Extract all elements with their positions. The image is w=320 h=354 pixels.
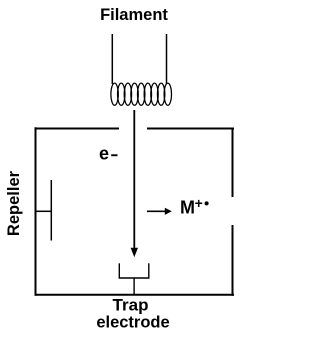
ion arrow (147, 210, 166, 212)
label radical dot (205, 201, 209, 205)
filament coil (111, 83, 172, 105)
wire repeller connection (37, 210, 52, 212)
svg-text:electrode: electrode (96, 314, 169, 332)
svg-text:+: + (195, 195, 203, 211)
svg-text:e: e (99, 144, 109, 164)
trap electrode cup bottom (119, 277, 150, 279)
trap electrode cup right wall (148, 263, 150, 278)
wire trap electrode stem (133, 278, 135, 295)
label e- dash (111, 154, 117, 156)
trap electrode cup left wall (118, 263, 120, 278)
svg-text:Trap: Trap (113, 296, 149, 315)
electron beam wire (133, 110, 135, 249)
electron beam arrowhead (131, 248, 138, 258)
wire box top edge left segment (35, 128, 120, 130)
wire box left edge (35, 127, 37, 295)
svg-text:Filament: Filament (100, 6, 168, 24)
repeller electrode plate (50, 180, 52, 241)
wire box right edge lower segment (232, 225, 234, 296)
svg-text:Repeller: Repeller (5, 170, 23, 236)
wire filament lead right (166, 34, 168, 84)
wire box top edge right segment (147, 128, 234, 130)
wire box right edge upper segment (232, 128, 234, 198)
wire box bottom edge (35, 294, 235, 296)
wire filament lead left (111, 34, 113, 84)
ion source box (35, 127, 235, 295)
svg-text:M: M (180, 198, 195, 218)
ion arrow head (165, 208, 172, 215)
